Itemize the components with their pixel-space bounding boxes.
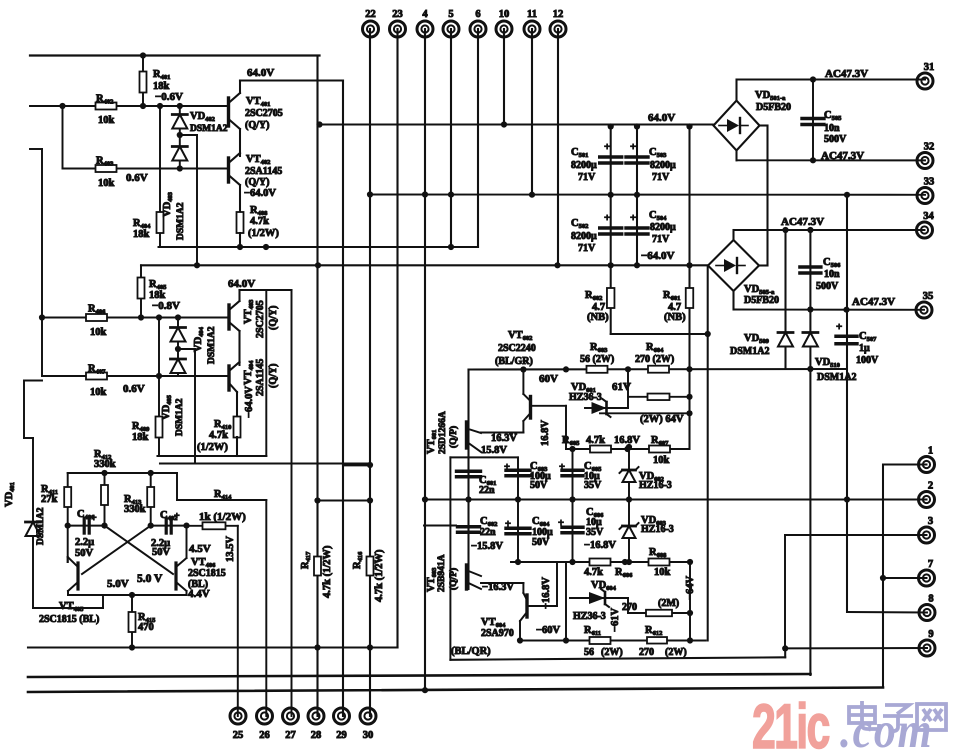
- svg-text:25: 25: [233, 730, 244, 741]
- svg-text:28: 28: [311, 730, 322, 741]
- svg-text:D5FB20: D5FB20: [756, 102, 791, 113]
- svg-text:1k (1/2W): 1k (1/2W): [199, 511, 246, 523]
- svg-text:(1/2W): (1/2W): [248, 228, 279, 239]
- svg-text:−64.0V: −64.0V: [244, 188, 276, 199]
- svg-text:16.3V: 16.3V: [491, 433, 517, 444]
- svg-text:71V: 71V: [652, 234, 670, 245]
- svg-text:2SC2705: 2SC2705: [245, 108, 283, 119]
- svg-text:64.0V: 64.0V: [247, 67, 274, 79]
- svg-text:+: +: [174, 511, 180, 522]
- svg-text:(NB): (NB): [587, 312, 609, 323]
- svg-text:50V: 50V: [532, 537, 550, 548]
- svg-text:+: +: [604, 141, 610, 153]
- svg-text:+: +: [630, 212, 636, 224]
- svg-text:50V: 50V: [530, 480, 548, 491]
- svg-text:18k: 18k: [132, 432, 149, 443]
- svg-text:22: 22: [365, 9, 376, 20]
- svg-text:(2W) 64V: (2W) 64V: [640, 414, 684, 425]
- svg-text:30: 30: [363, 730, 374, 741]
- svg-text:8: 8: [928, 594, 933, 605]
- svg-text:16.8V: 16.8V: [540, 420, 551, 446]
- svg-text:(Q/Y): (Q/Y): [268, 364, 279, 388]
- svg-text:500V: 500V: [816, 281, 839, 292]
- svg-text:5: 5: [448, 9, 453, 20]
- svg-text:+: +: [91, 513, 97, 524]
- svg-text:71V: 71V: [578, 243, 596, 254]
- svg-text:+: +: [504, 462, 510, 473]
- svg-text:+: +: [630, 141, 636, 153]
- svg-text:+: +: [559, 462, 565, 473]
- svg-text:10k: 10k: [90, 327, 107, 338]
- svg-text:12: 12: [553, 9, 564, 20]
- svg-text:−64.0V: −64.0V: [244, 386, 255, 418]
- svg-text:−0.6V: −0.6V: [155, 91, 183, 103]
- svg-text:2SC2705: 2SC2705: [255, 300, 266, 338]
- svg-text:21ic: 21ic: [752, 692, 830, 751]
- svg-text:(Q/Y): (Q/Y): [268, 306, 279, 330]
- svg-text:10n: 10n: [824, 269, 840, 280]
- svg-text:8200μ: 8200μ: [650, 160, 676, 171]
- svg-text:−15.8V: −15.8V: [471, 541, 503, 552]
- svg-text:64.0V: 64.0V: [648, 112, 675, 124]
- svg-text:10k: 10k: [653, 455, 670, 466]
- svg-text:32: 32: [924, 142, 935, 153]
- svg-text:50V: 50V: [75, 548, 94, 559]
- svg-text:15.8V: 15.8V: [481, 445, 507, 456]
- svg-text:.com: .com: [840, 703, 933, 751]
- svg-text:(Q/Y): (Q/Y): [245, 120, 269, 131]
- svg-text:(2M): (2M): [658, 598, 679, 609]
- svg-text:27k: 27k: [41, 494, 58, 505]
- svg-text:0.6V: 0.6V: [126, 172, 148, 184]
- svg-text:71V: 71V: [652, 172, 670, 183]
- svg-text:27: 27: [285, 730, 296, 741]
- svg-text:270: 270: [639, 647, 654, 658]
- svg-text:33: 33: [924, 177, 935, 188]
- svg-text:3: 3: [928, 516, 933, 527]
- svg-text:2SC1815 (BL): 2SC1815 (BL): [39, 614, 99, 625]
- svg-text:6: 6: [475, 9, 480, 20]
- svg-text:HZ36-3: HZ36-3: [569, 392, 602, 403]
- svg-text:−61V: −61V: [610, 608, 621, 632]
- svg-text:2SC2240: 2SC2240: [498, 343, 536, 354]
- svg-text:2SB941A: 2SB941A: [437, 554, 447, 592]
- svg-text:50V: 50V: [152, 547, 171, 558]
- svg-text:270 (2W): 270 (2W): [635, 354, 674, 365]
- svg-text:+: +: [505, 519, 511, 530]
- svg-text:+: +: [604, 212, 610, 224]
- svg-text:(2W): (2W): [601, 647, 623, 658]
- svg-text:4.7k: 4.7k: [584, 567, 603, 578]
- svg-text:−60V: −60V: [536, 625, 560, 636]
- svg-text:16.8V: 16.8V: [614, 435, 640, 446]
- svg-text:AC47.3V: AC47.3V: [821, 150, 864, 162]
- svg-text:HZ16-3: HZ16-3: [641, 524, 674, 535]
- svg-text:DSM1A2: DSM1A2: [176, 202, 186, 240]
- svg-text:DSM1A2: DSM1A2: [817, 372, 856, 383]
- svg-text:4.7k: 4.7k: [586, 435, 605, 446]
- svg-text:23: 23: [392, 9, 403, 20]
- svg-text:64.0V: 64.0V: [228, 278, 255, 290]
- svg-text:56: 56: [584, 647, 594, 658]
- svg-text:2.2μ: 2.2μ: [75, 537, 94, 548]
- svg-text:DSM1A2: DSM1A2: [207, 326, 217, 364]
- svg-text:8200μ: 8200μ: [650, 222, 676, 233]
- svg-text:100V: 100V: [856, 355, 879, 366]
- svg-text:270: 270: [622, 602, 637, 613]
- svg-text:0.6V: 0.6V: [123, 383, 145, 395]
- svg-text:10: 10: [499, 9, 510, 20]
- svg-text:8200μ: 8200μ: [571, 160, 597, 171]
- svg-text:2SA1145: 2SA1145: [255, 359, 266, 396]
- svg-text:AC47.3V: AC47.3V: [852, 296, 895, 308]
- svg-text:+: +: [558, 518, 564, 529]
- svg-text:(1/2W): (1/2W): [197, 442, 228, 453]
- svg-text:10n: 10n: [824, 123, 840, 134]
- svg-text:HZ16-3: HZ16-3: [639, 480, 672, 491]
- svg-text:+: +: [836, 321, 842, 333]
- svg-text:4.7k (1/2W): 4.7k (1/2W): [322, 545, 333, 598]
- svg-text:2SA970: 2SA970: [481, 628, 514, 639]
- svg-text:2SD1266A: 2SD1266A: [438, 411, 448, 454]
- svg-text:4: 4: [422, 9, 428, 20]
- svg-text:2SC1815: 2SC1815: [188, 568, 226, 579]
- svg-text:−64V: −64V: [685, 576, 696, 600]
- svg-text:13.5V: 13.5V: [225, 536, 236, 562]
- svg-text:D5FB20: D5FB20: [744, 295, 779, 306]
- svg-text:330k: 330k: [94, 459, 116, 470]
- svg-text:500V: 500V: [824, 134, 847, 145]
- svg-text:1: 1: [928, 446, 933, 457]
- svg-text:HZ36-3: HZ36-3: [573, 611, 606, 622]
- svg-text:−16.8V: −16.8V: [584, 540, 616, 551]
- svg-text:31: 31: [924, 62, 935, 73]
- svg-text:26: 26: [259, 730, 270, 741]
- svg-text:61V: 61V: [612, 381, 631, 393]
- svg-text:35V: 35V: [586, 527, 604, 538]
- svg-text:AC47.3V: AC47.3V: [825, 68, 868, 80]
- svg-text:(BL/QR): (BL/QR): [451, 646, 491, 657]
- svg-text:−64.0V: −64.0V: [641, 250, 675, 262]
- svg-text:60V: 60V: [539, 373, 558, 385]
- svg-text:35V: 35V: [584, 480, 602, 491]
- svg-text:9: 9: [928, 629, 933, 640]
- svg-text:10k: 10k: [90, 387, 107, 398]
- svg-text:2: 2: [928, 481, 933, 492]
- svg-text:(2W): (2W): [665, 647, 687, 658]
- svg-text:34: 34: [923, 211, 934, 222]
- svg-text:(BL/GR): (BL/GR): [495, 356, 533, 367]
- svg-text:10k: 10k: [98, 178, 115, 189]
- svg-text:DSM1A2: DSM1A2: [36, 507, 46, 545]
- svg-text:−16.3V: −16.3V: [482, 582, 514, 593]
- svg-text:4.7k: 4.7k: [209, 430, 228, 441]
- svg-text:4.4V: 4.4V: [188, 588, 210, 600]
- svg-text:DSM1A2: DSM1A2: [730, 346, 769, 357]
- svg-text:71V: 71V: [578, 172, 596, 183]
- svg-text:1μ: 1μ: [859, 343, 870, 354]
- svg-text:11: 11: [527, 9, 537, 20]
- svg-text:56 (2W): 56 (2W): [580, 354, 614, 365]
- svg-text:−0.8V: −0.8V: [152, 300, 180, 312]
- svg-text:(Q/Y): (Q/Y): [245, 177, 269, 188]
- svg-text:10k: 10k: [654, 567, 671, 578]
- svg-text:7: 7: [928, 559, 933, 570]
- svg-text:22n: 22n: [479, 485, 495, 496]
- svg-text:10k: 10k: [98, 115, 115, 126]
- svg-text:4.7k: 4.7k: [250, 216, 269, 227]
- svg-text:18k: 18k: [133, 229, 150, 240]
- svg-text:470: 470: [138, 622, 154, 633]
- svg-text:22n: 22n: [480, 527, 496, 538]
- svg-text:35: 35: [923, 291, 934, 302]
- svg-text:−16.8V: −16.8V: [541, 577, 552, 609]
- svg-text:4.7k (1/2W): 4.7k (1/2W): [374, 549, 385, 602]
- svg-text:8200μ: 8200μ: [571, 231, 597, 242]
- svg-text:5.0V: 5.0V: [107, 578, 129, 590]
- svg-text:4.5V: 4.5V: [189, 543, 211, 555]
- svg-text:(NB): (NB): [664, 312, 686, 323]
- svg-text:5.0 V: 5.0 V: [137, 573, 163, 585]
- svg-text:(Q/P): (Q/P): [448, 426, 459, 448]
- svg-text:330k: 330k: [124, 504, 146, 515]
- svg-text:2SA1145: 2SA1145: [245, 166, 282, 177]
- svg-text:DSM1A2: DSM1A2: [190, 124, 228, 134]
- svg-text:AC47.3V: AC47.3V: [781, 216, 824, 228]
- svg-text:(Q/P): (Q/P): [448, 568, 459, 590]
- svg-text:DSM1A2: DSM1A2: [175, 398, 185, 436]
- svg-text:29: 29: [336, 730, 347, 741]
